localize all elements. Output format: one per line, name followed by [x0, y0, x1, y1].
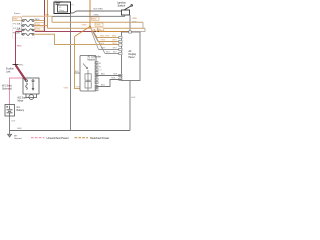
svg-text:RED ORG: RED ORG [100, 36, 110, 38]
svg-text:RED: RED [112, 36, 117, 38]
junction star [75, 27, 99, 42]
svg-text:RED: RED [133, 18, 138, 20]
svg-text:RED: RED [17, 46, 22, 48]
svg-text:Switched Power: Switched Power [90, 136, 109, 140]
svg-text:BLK: BLK [132, 97, 137, 99]
svg-text:Solenoid: Solenoid [2, 88, 12, 91]
wire B: switch bottom going left [52, 15, 125, 16]
svg-text:Ground: Ground [14, 137, 22, 140]
svg-text:BLK: BLK [114, 74, 118, 76]
svg-text:ORG: ORG [112, 43, 117, 45]
big tan loop rectangle [75, 37, 85, 89]
wire: orange vertical beside it [47, 0, 49, 28]
svg-text:Motor: Motor [18, 100, 24, 103]
svg-text:RED: RED [17, 29, 22, 31]
wire: right end connectors [130, 22, 145, 31]
solenoid box W1 [23, 78, 39, 94]
svg-text:Switch: Switch [118, 4, 126, 8]
wire: maroon vertical top left of key box [44, 0, 46, 32]
svg-text:Panel: Panel [129, 57, 135, 59]
junction labels [92, 17, 100, 20]
wire: key box down to ground bus [70, 14, 72, 131]
wire: tan feed above fuse block [22, 15, 52, 17]
svg-text:B2: B2 [99, 66, 101, 68]
svg-text:ORG: ORG [94, 14, 99, 16]
svg-text:ORG: ORG [100, 43, 105, 45]
svg-text:F1 15A: F1 15A [14, 22, 21, 25]
wire: orange feed vertical into junction [89, 0, 91, 27]
wire: maroon/orange mid horizontal [35, 31, 96, 33]
fuse input bus [21, 21, 23, 35]
wire: maroon battery cable top corner [16, 31, 23, 33]
svg-text:Module: Module [88, 59, 96, 61]
wire: tan A long horizontal [52, 21, 143, 23]
svg-text:RED: RED [35, 19, 40, 21]
svg-text:BLK: BLK [101, 74, 105, 76]
wire: pink battery feed [10, 78, 24, 105]
bundle wires to display panel [97, 37, 122, 39]
svg-text:GRY: GRY [101, 48, 106, 50]
fuse F3 [21, 29, 35, 31]
svg-text:BLK: BLK [12, 121, 17, 123]
wire: maroon battery cable vertical [15, 32, 17, 66]
legend switched [75, 137, 89, 139]
fuse output stubs [34, 20, 45, 22]
svg-text:W2 Start: W2 Start [18, 97, 27, 100]
wire: A1 left stub [75, 72, 81, 74]
fuse labels [13, 17, 22, 20]
wire A: key box to ignition switch [71, 11, 122, 13]
wires A1 to panel [96, 75, 122, 77]
ground bus [10, 130, 131, 132]
svg-text:ORG: ORG [96, 25, 101, 27]
display panel A2 [122, 32, 141, 81]
tick node [13, 64, 19, 66]
svg-text:Relay: Relay [59, 10, 64, 12]
fusible link thick diagonal [16, 65, 27, 81]
svg-text:ORG: ORG [101, 40, 106, 42]
fuse block dashed outline [13, 17, 35, 39]
key box U1 [54, 2, 71, 14]
svg-text:A1: A1 [99, 62, 101, 65]
svg-text:BLK: BLK [106, 52, 110, 54]
ground symbol W7 [7, 134, 11, 137]
svg-text:C3: C3 [99, 70, 101, 72]
wire: battery to ground bus [9, 116, 11, 134]
svg-text:X1 Conn: X1 Conn [55, 1, 64, 3]
svg-text:BLK: BLK [112, 78, 116, 80]
wire: panel down to ground bus [129, 81, 131, 131]
wire: tan B long horizontal [48, 27, 146, 29]
A1 connector pins [95, 62, 98, 91]
fuse F1 [21, 19, 35, 21]
svg-text:BLK: BLK [101, 85, 105, 87]
wire: fuse4 to long tan [34, 34, 122, 44]
svg-text:RD: RD [99, 29, 103, 31]
controller A1 [80, 56, 96, 92]
start motor W2 [26, 94, 37, 99]
battery G1 [5, 105, 15, 117]
svg-text:F3 15A: F3 15A [13, 32, 20, 35]
panel connector pins [119, 31, 132, 81]
svg-text:Fuses: Fuses [14, 13, 20, 15]
svg-text:BLK: BLK [18, 128, 23, 130]
svg-text:A1 Controller: A1 Controller [88, 56, 102, 59]
svg-text:Display: Display [129, 54, 137, 56]
svg-text:BLK RED: BLK RED [94, 9, 104, 11]
svg-text:RED: RED [92, 19, 97, 21]
fuse F4 [21, 33, 34, 35]
svg-text:ORG: ORG [112, 40, 117, 42]
svg-text:Unswitched Power: Unswitched Power [47, 136, 69, 140]
svg-text:GRY: GRY [113, 48, 118, 50]
svg-text:ORG: ORG [64, 87, 69, 89]
svg-text:BLK: BLK [113, 52, 117, 54]
legend unswitched [31, 137, 45, 139]
svg-text:Battery: Battery [17, 109, 25, 112]
wire: switch drop to display panel [129, 15, 131, 32]
svg-text:RED: RED [14, 19, 19, 21]
fuse F2 [21, 24, 35, 26]
svg-text:ORG: ORG [82, 24, 87, 26]
svg-text:RED: RED [19, 65, 24, 67]
A1 internals [83, 64, 91, 92]
